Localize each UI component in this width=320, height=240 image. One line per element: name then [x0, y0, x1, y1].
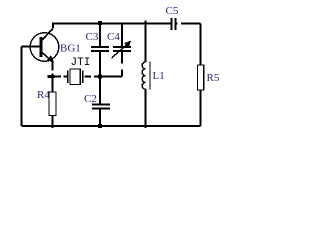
- svg-text:C4: C4: [107, 31, 120, 43]
- wire crystal left lead: [54, 76, 67, 78]
- transistor BG1: [30, 29, 59, 63]
- capacitor C4 (variable): [112, 24, 132, 77]
- svg-text:L1: L1: [153, 70, 165, 82]
- wire L1 bottom lead: [145, 89, 147, 128]
- wire R4 bottom lead: [52, 116, 54, 129]
- svg-text:JTI: JTI: [71, 57, 91, 69]
- node emitter junction: [48, 75, 55, 78]
- svg-text:BG1: BG1: [60, 43, 81, 55]
- capacitor C3: [91, 24, 109, 77]
- node C3 top junction: [98, 21, 102, 25]
- wire R5 bottom lead: [200, 90, 202, 126]
- svg-text:R4: R4: [37, 89, 50, 101]
- inductor L1: [142, 62, 150, 90]
- wire left rail (base to bottom rail): [21, 47, 23, 126]
- svg-text:C5: C5: [166, 5, 179, 17]
- wire top rail from C5 right plate to top-right corner: [177, 23, 201, 25]
- node crystal/C2/C4 junction: [98, 75, 102, 79]
- wire right rail down to R5: [200, 24, 202, 66]
- capacitor C5: [171, 18, 175, 30]
- svg-text:R5: R5: [207, 72, 220, 84]
- node C2 bottom junction: [98, 124, 102, 128]
- wire top rail from collector to C5 left plate: [53, 24, 171, 29]
- svg-text:C3: C3: [86, 31, 99, 43]
- resistor R5: [198, 65, 204, 90]
- wire crystal right lead to C2 node: [85, 76, 101, 78]
- wire from C2 node to C4 bottom riser: [100, 76, 122, 78]
- wire base lead: [22, 46, 40, 48]
- crystal JTI: [68, 69, 83, 85]
- capacitor C2: [92, 77, 110, 126]
- wire L1 top lead: [145, 21, 147, 63]
- resistor R4: [49, 92, 56, 116]
- wire emitter down to R4: [52, 62, 54, 92]
- wire bottom rail: [22, 125, 201, 127]
- svg-text:C2: C2: [84, 93, 97, 105]
